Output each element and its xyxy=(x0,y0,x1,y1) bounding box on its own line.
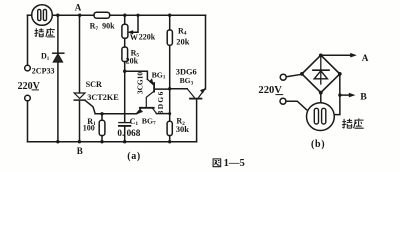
node A junction dot xyxy=(78,14,81,17)
wire bottom rail B xyxy=(28,141,197,143)
label 插座 (a) xyxy=(34,28,43,37)
svg-text:W: W xyxy=(130,33,138,42)
wire SCR cathode to bottom rail xyxy=(79,100,81,142)
svg-text:20k: 20k xyxy=(176,36,190,46)
AC underline under V (b) xyxy=(275,94,283,96)
transistor BG7 collector lead xyxy=(153,108,157,113)
junction B tap (b) xyxy=(338,93,341,96)
resistor R5 body xyxy=(122,47,128,62)
transistor BG1 collector lead xyxy=(146,91,154,107)
junction R4 node with BG1 base xyxy=(168,87,171,90)
arrowhead A (b) xyxy=(350,53,357,58)
resistor R7 body xyxy=(94,12,110,18)
arrowhead B (b) xyxy=(349,93,356,98)
label 插座 (b) xyxy=(342,119,352,129)
wire node E to BG1 emitter xyxy=(125,71,148,79)
svg-text:220k: 220k xyxy=(139,33,156,42)
junction node E xyxy=(123,70,126,73)
svg-text:20k: 20k xyxy=(126,56,139,65)
svg-text:SCR: SCR xyxy=(86,80,102,89)
junction W top xyxy=(123,14,126,17)
junction R1 bottom xyxy=(100,140,103,143)
svg-text:3DG6: 3DG6 xyxy=(176,68,197,77)
capacitor C1 plates xyxy=(119,122,130,124)
transistor BG1 emitter arrow (PNP) xyxy=(147,79,153,84)
transistor BG3 collector lead xyxy=(187,89,194,98)
junction D1 top xyxy=(56,14,59,17)
bridge corner dot top xyxy=(319,54,323,58)
junction BG7 collector column xyxy=(168,112,171,115)
svg-text:0. 068: 0. 068 xyxy=(117,128,140,138)
svg-text:100: 100 xyxy=(83,124,95,133)
socket XS1 (circuit a) xyxy=(32,5,53,26)
wire W to R5 xyxy=(124,38,126,47)
wire R2 to bottom rail xyxy=(169,136,171,142)
junction R4 top xyxy=(168,14,171,17)
wire output B (b) xyxy=(340,94,350,96)
diode D1 symbol xyxy=(53,52,64,54)
svg-text:1—5: 1—5 xyxy=(224,158,245,169)
svg-text:3CG10: 3CG10 xyxy=(136,72,145,94)
junction D1 bottom xyxy=(56,140,59,143)
wire left column to bottom rail xyxy=(27,101,29,142)
resistor R4 body xyxy=(167,30,172,45)
wire bridge right corner down xyxy=(334,74,340,115)
wire lower terminal to socket xyxy=(286,101,307,110)
terminal 220V upper (b) xyxy=(280,74,286,80)
wire BG1 base to node R4 xyxy=(155,88,170,90)
wire R4 to node xyxy=(169,45,171,121)
terminal 220V lower (a) xyxy=(25,95,31,101)
resistor R2 body xyxy=(167,121,172,135)
resistor R1 leads xyxy=(101,114,103,142)
wire C1 to bottom rail xyxy=(124,126,126,141)
bridge corner dot right xyxy=(338,72,342,76)
transistor BG3 emitter arrow (NPN) xyxy=(199,89,205,97)
transistor BG7 base bar xyxy=(140,107,154,109)
svg-text:3CT2KE: 3CT2KE xyxy=(87,93,119,102)
wire SCR gate lead xyxy=(85,100,95,114)
wire SCR anode from node A xyxy=(79,15,81,93)
svg-text:A: A xyxy=(362,53,369,63)
wire top rail A (socket to R7) xyxy=(52,14,94,16)
potentiometer W wiper arrow xyxy=(132,15,138,32)
svg-text:(b): (b) xyxy=(311,139,325,150)
potentiometer W body xyxy=(122,24,128,38)
transistor BG1 base bar xyxy=(153,83,155,92)
svg-text:2CP33: 2CP33 xyxy=(32,67,55,76)
wire bridge bottom to socket xyxy=(320,93,322,103)
svg-text:B: B xyxy=(77,146,83,156)
junction C1 bottom xyxy=(123,140,126,143)
junction gate R1 top xyxy=(100,112,103,115)
junction SCR cathode bottom xyxy=(78,140,81,143)
SCR V1 3CT2KE symbol xyxy=(74,93,85,98)
socket XS2 (circuit b) xyxy=(307,103,335,131)
resistor R1 body xyxy=(99,120,105,135)
bridge corner dot left xyxy=(300,72,304,76)
junction R2 bottom xyxy=(168,140,171,143)
terminal 220V upper (a) xyxy=(25,65,31,71)
wire output A (b) xyxy=(321,54,351,56)
bridge inner diode symbol xyxy=(320,58,322,85)
wire BG3 base to bottom rail corner xyxy=(196,99,198,142)
bridge rectifier diamond xyxy=(302,55,340,92)
transistor BG7 emitter arrow (NPN) xyxy=(137,108,141,113)
junction wiper top xyxy=(136,14,139,17)
wire gate rail to BG7 emitter xyxy=(95,113,136,115)
svg-text:(a): (a) xyxy=(127,151,141,162)
wire left column to 220V terminal xyxy=(27,15,29,65)
wire R5 to node E / capacitor column xyxy=(124,62,126,123)
wire R4 top lead xyxy=(169,15,171,30)
wire diode D1 branch xyxy=(57,15,59,142)
bridge corner dot bottom xyxy=(319,91,323,95)
wire top rail A (left of socket) xyxy=(28,14,32,16)
figure caption 图 1-5 xyxy=(213,159,221,167)
svg-text:30k: 30k xyxy=(176,124,190,134)
terminal 220V lower (b) xyxy=(280,98,286,104)
wire top rail A (R7 to top-right corner) xyxy=(110,14,206,16)
wire node to BG3 collector xyxy=(170,88,188,90)
AC underline under V (a) xyxy=(32,89,39,91)
svg-text:3DG6: 3DG6 xyxy=(156,90,165,114)
svg-text:A: A xyxy=(75,3,82,13)
transistor BG3 base bar xyxy=(190,98,201,100)
wire right edge from rail A to BG3 emitter xyxy=(205,15,207,89)
svg-text:B: B xyxy=(360,91,367,102)
wire upper terminal to bridge left corner xyxy=(286,74,302,77)
wire W top lead from rail A xyxy=(124,15,126,24)
wire BG7 collector to R4 column xyxy=(156,113,169,115)
svg-text:R7 90k: R7 90k xyxy=(90,22,116,32)
